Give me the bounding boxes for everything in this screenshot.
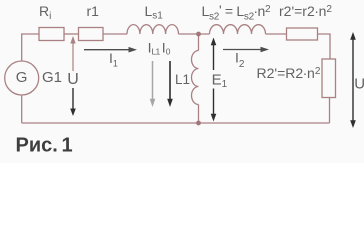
generator G1 circle <box>5 61 39 95</box>
wire Ls2' to r2' <box>266 33 287 35</box>
svg-text:G: G <box>16 69 28 86</box>
node B bottom junction dot <box>196 121 201 126</box>
resistor Ri <box>39 28 64 41</box>
svg-text:U2: U2 <box>354 76 364 95</box>
wire left vertical top <box>22 34 39 61</box>
svg-text:R2'=R2∙n2: R2'=R2∙n2 <box>257 65 321 81</box>
wire r2' to R2' <box>318 34 331 59</box>
inductor Ls1 <box>127 25 179 34</box>
svg-text:G1: G1 <box>42 69 62 86</box>
svg-text:U: U <box>67 71 79 88</box>
wire L1 branch top <box>198 34 200 51</box>
voltage arrow U up part (circuit colour) <box>70 36 75 71</box>
resistor r2' <box>287 28 318 40</box>
svg-text:Рис.1: Рис.1 <box>16 135 73 157</box>
current arrow I0 (black) <box>167 61 173 107</box>
wire Ls1 to node <box>179 33 210 35</box>
resistor r1 <box>79 28 104 41</box>
voltage arrow U2 (double headed) <box>350 32 356 128</box>
voltage arrow U down part (black) <box>70 88 76 116</box>
node A top junction dot <box>196 32 201 37</box>
wire L1 branch bottom <box>198 105 200 124</box>
svg-text:L1: L1 <box>175 72 190 87</box>
svg-text:r1: r1 <box>87 3 100 19</box>
wire Ri to r1 <box>64 33 79 35</box>
current arrow I2 <box>223 47 269 53</box>
wire r1 to Ls1 <box>103 33 127 35</box>
svg-text:r2'=r2∙n2: r2'=r2∙n2 <box>279 3 332 19</box>
current arrow IL1 (grey) <box>150 61 156 107</box>
inductor L1 <box>192 51 199 105</box>
resistor R2' <box>322 59 336 98</box>
inductor Ls2' <box>210 25 266 34</box>
wire R2' to bottom rail <box>329 98 331 124</box>
EMF arrow E1 (double headed) <box>211 38 217 122</box>
bottom rail wire <box>22 122 330 124</box>
current arrow I1 <box>84 47 137 53</box>
wire bottom left vertical <box>21 95 23 123</box>
